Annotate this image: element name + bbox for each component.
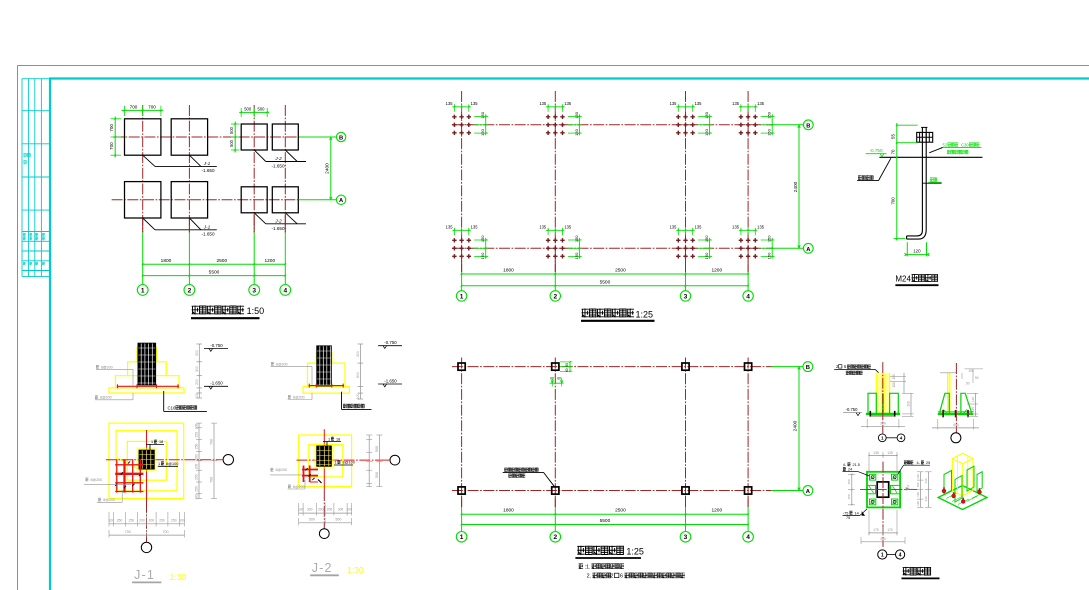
svg-text:1200: 1200: [711, 508, 722, 514]
anchor bolt group at (555,125): [546, 115, 565, 135]
svg-text:150: 150: [480, 111, 485, 118]
svg-text:150: 150: [767, 252, 772, 259]
svg-text:75: 75: [846, 516, 850, 520]
svg-text:1: 1: [141, 287, 145, 294]
svg-text:4: 4: [746, 293, 750, 300]
J-1 plan bottom dim chains: [109, 523, 184, 525]
svg-text:-1.650: -1.650: [210, 381, 223, 386]
svg-text:190: 190: [916, 492, 920, 497]
svg-text:250: 250: [117, 518, 123, 522]
svg-text:100: 100: [356, 394, 360, 400]
base plan: left gray dims: [851, 474, 853, 505]
svg-text:300: 300: [195, 366, 199, 372]
svg-text:135: 135: [887, 451, 893, 455]
J-1 section: yellow stepped footing: [109, 347, 184, 393]
J-2 section left gray labels: [271, 362, 274, 366]
base elev view2: yellow shaft: [948, 373, 950, 414]
M24 leader foundation top surface: [858, 175, 873, 180]
svg-text:4: 4: [283, 287, 287, 294]
svg-text:8@200: 8@200: [101, 365, 113, 369]
anchor plan grid bubbles: [456, 291, 466, 301]
svg-text:150: 150: [847, 479, 851, 484]
svg-text:2: 2: [611, 574, 614, 580]
svg-text:340: 340: [924, 496, 928, 501]
svg-text:8@200: 8@200: [293, 485, 305, 489]
foundation footing squares large J-1: [125, 119, 161, 155]
dim 700/700 left: [114, 117, 116, 158]
J-2 plan: yellow squares: [299, 435, 352, 487]
anchor bolt group at (462,125): [452, 115, 471, 135]
J-2 plan right dim chains: [368, 435, 370, 487]
svg-text:2: 2: [553, 293, 557, 300]
3D: yellow box column: [952, 453, 973, 464]
J-1 plan centerlines: [146, 430, 148, 502]
svg-text:500: 500: [229, 126, 234, 134]
svg-text:300: 300: [195, 350, 199, 356]
base elev view2: green base plate: [938, 413, 974, 415]
svg-text:B: B: [806, 365, 810, 371]
anchor plan bottom dims: [461, 256, 463, 272]
foundation plan bottom dims: [142, 219, 144, 233]
base elev view2: green stiffeners trapezoid: [940, 393, 949, 413]
svg-text:150: 150: [767, 235, 772, 242]
svg-text:2: 2: [553, 534, 557, 541]
svg-text:250: 250: [171, 518, 177, 522]
svg-text:135: 135: [564, 101, 572, 106]
svg-text:300: 300: [356, 351, 360, 357]
svg-text:700: 700: [109, 124, 114, 132]
svg-text:1:30: 1:30: [170, 572, 187, 582]
svg-text:120: 120: [916, 474, 920, 479]
base elev view1: green center rib: [882, 393, 884, 413]
svg-text:50: 50: [975, 376, 979, 380]
J-1 plan: nested yellow squares: [109, 423, 184, 498]
svg-text:6: 6: [844, 364, 847, 369]
svg-text:135: 135: [446, 101, 454, 106]
svg-text:1: 1: [335, 461, 337, 465]
svg-text:J-1: J-1: [203, 161, 211, 166]
svg-text:J-2: J-2: [274, 218, 282, 223]
J-2 plan bubbles: [390, 455, 400, 465]
base plan: bottom gray dims 170 170: [869, 532, 897, 534]
J-1 plan slope diagonal: [117, 458, 139, 469]
svg-text:4-: 4-: [843, 463, 847, 467]
column plan vertical centerlines: [461, 358, 463, 508]
drawing frame outer thin border: [17, 66, 19, 590]
svg-text:8@200: 8@200: [293, 395, 305, 399]
svg-text:135: 135: [564, 225, 572, 230]
svg-text:120: 120: [916, 501, 920, 506]
svg-text:150: 150: [767, 128, 772, 135]
svg-text:250: 250: [195, 432, 199, 438]
svg-text:-1.650: -1.650: [384, 378, 397, 383]
svg-text:4: 4: [900, 436, 903, 441]
svg-text:4-: 4-: [917, 461, 921, 465]
svg-text:C10: C10: [168, 406, 176, 411]
svg-text:8@200: 8@200: [276, 468, 288, 472]
svg-text:A: A: [806, 247, 811, 253]
svg-text:100: 100: [347, 507, 353, 511]
svg-text:135: 135: [539, 225, 547, 230]
svg-text:1: 1: [328, 437, 330, 441]
foundation footing squares small J-2: [241, 124, 267, 150]
3D: red anchor bolts: [943, 487, 945, 491]
svg-text:60: 60: [557, 377, 561, 381]
svg-text:4: 4: [746, 534, 750, 541]
svg-text:-1.650: -1.650: [271, 226, 284, 231]
svg-text:700: 700: [891, 197, 896, 205]
svg-text:6: 6: [620, 574, 623, 580]
svg-text:1800: 1800: [161, 258, 172, 264]
base elev view1: red centerline: [882, 362, 884, 433]
J-2 plan column section: [314, 444, 334, 469]
svg-text:170: 170: [873, 528, 879, 532]
svg-text:700: 700: [125, 530, 131, 534]
svg-text:135: 135: [732, 101, 740, 106]
svg-text:250: 250: [159, 518, 165, 522]
J-1 plan right dim chains: [198, 423, 200, 498]
base plan: centerlines: [882, 462, 884, 547]
svg-text:135: 135: [670, 101, 678, 106]
svg-text:J-2: J-2: [312, 561, 333, 575]
base elev view2: bolts dark red: [942, 410, 944, 417]
J-2 plan bottom dim chains: [299, 512, 352, 514]
svg-text:150: 150: [480, 128, 485, 135]
svg-text:1: 1: [460, 293, 464, 300]
svg-text:5500: 5500: [600, 518, 611, 524]
J-1 section leader C10 blinding: [163, 391, 165, 411]
svg-text:150: 150: [704, 111, 709, 118]
svg-text:150: 150: [704, 128, 709, 135]
base elev view2: bubble: [951, 433, 961, 443]
J-1 plan gray leader labels: [86, 478, 89, 482]
svg-text:500: 500: [375, 472, 379, 478]
svg-text:200: 200: [327, 507, 333, 511]
M24 left dim chain 55/70/700: [896, 123, 898, 241]
anchor bolt group at (555,248): [546, 238, 565, 258]
J-2 section right dim chain: [359, 344, 361, 399]
svg-text:135: 135: [873, 451, 879, 455]
base elev view1: bubbles 1-4: [878, 434, 886, 442]
svg-text:-0.750: -0.750: [384, 340, 397, 345]
M24 mid green label anchor: [930, 177, 937, 181]
M24 bolt rod: [907, 127, 923, 235]
J-1 plan red rebar grid: [116, 459, 118, 492]
svg-text:1: 1: [881, 436, 884, 441]
svg-text:-0.750: -0.750: [210, 343, 223, 348]
dim 500/500 left col3: [234, 122, 236, 153]
svg-text:18: 18: [159, 440, 163, 444]
svg-text:200: 200: [318, 507, 324, 511]
svg-text:J-1: J-1: [203, 224, 211, 229]
J-1 plan column section: [137, 448, 157, 472]
svg-text:2: 2: [188, 287, 192, 294]
anchor bolt group at (748,248): [739, 238, 758, 258]
svg-text:2400: 2400: [793, 181, 799, 192]
svg-text:700: 700: [210, 477, 214, 483]
svg-text:150: 150: [847, 494, 851, 499]
column plan title: [577, 546, 623, 555]
anchor bolt group at (686,248): [676, 238, 695, 258]
svg-text:2500: 2500: [216, 258, 227, 264]
svg-text:250: 250: [195, 474, 199, 480]
base plan: column box black: [877, 482, 889, 497]
J-2 section leader blinding: [341, 392, 343, 410]
svg-text:1800: 1800: [503, 267, 514, 273]
svg-text:200: 200: [139, 518, 145, 522]
base elev view1: green base plate: [866, 413, 900, 415]
dim 700/700 top: [122, 109, 164, 111]
svg-text:24: 24: [848, 468, 852, 472]
anchor bolt group at (462,248): [452, 238, 471, 258]
anchor plan title: [582, 309, 635, 318]
svg-text:4: 4: [899, 553, 902, 559]
svg-text:300: 300: [338, 507, 344, 511]
svg-text:B: B: [806, 123, 810, 129]
3D: green stiffener plates: [944, 471, 952, 495]
svg-text:A: A: [339, 198, 344, 204]
base plan: bubbles 1-4: [878, 550, 887, 559]
svg-text:135: 135: [757, 101, 765, 106]
base plan: green plate: [867, 472, 900, 508]
svg-text:-1.650: -1.650: [201, 231, 214, 236]
base elev view2: right gray dim chain: [975, 393, 977, 416]
svg-text:400: 400: [953, 423, 959, 427]
foundation plan: grid centerlines: [142, 105, 144, 232]
svg-text:1: 1: [158, 462, 160, 466]
svg-text:500: 500: [244, 107, 252, 112]
base elev view1: right gray dims: [903, 373, 905, 394]
svg-text:100: 100: [195, 494, 199, 500]
svg-text:-75: -75: [843, 511, 849, 515]
anchor plan: vertical centerlines: [461, 91, 463, 272]
leader J-1 row A: [143, 218, 155, 230]
svg-text:150: 150: [767, 111, 772, 118]
svg-text:J-2: J-2: [274, 156, 282, 161]
fabrication drawing title: [903, 567, 931, 576]
foundation right B/A bubbles and 2400 dim: [299, 136, 336, 138]
anchor plan: horizontal centerlines: [452, 124, 773, 126]
svg-text:100: 100: [892, 382, 896, 388]
svg-text:340: 340: [880, 422, 886, 426]
J-1 section right dim chain: [198, 344, 200, 398]
svg-text:1: 1: [151, 440, 153, 444]
svg-text:-0.750: -0.750: [846, 407, 859, 412]
base plan: right gray dim chains: [920, 472, 922, 508]
svg-text:190: 190: [906, 401, 910, 407]
svg-text:150: 150: [704, 235, 709, 242]
svg-text:190: 190: [916, 482, 920, 487]
svg-text:2400: 2400: [793, 420, 799, 431]
svg-text:200: 200: [195, 464, 199, 470]
column plan leader with welded-box note: [504, 468, 538, 472]
svg-text:8@200: 8@200: [276, 362, 288, 366]
base elev view1: anchor bolts: [869, 411, 871, 417]
svg-text:500: 500: [309, 517, 315, 521]
column plan right B/A and 2400: [771, 366, 803, 368]
svg-text:-0.750: -0.750: [869, 148, 882, 153]
svg-text::1.: :1.: [585, 564, 591, 570]
svg-text:135: 135: [670, 225, 678, 230]
column plan grid bubbles: [456, 532, 467, 543]
svg-text:170: 170: [887, 528, 893, 532]
svg-text:60: 60: [565, 368, 569, 372]
svg-text:2500: 2500: [615, 267, 626, 273]
column plan notes: [579, 563, 584, 569]
svg-text:135: 135: [446, 225, 454, 230]
J-1 section: column with rebar: [138, 343, 157, 386]
grid bubbles 1-4 foundation: [137, 285, 148, 296]
base elev view2: bottom dim 400: [937, 419, 939, 430]
svg-text:700: 700: [148, 105, 156, 110]
base elev view2: red centerline: [955, 363, 957, 433]
svg-text:300: 300: [307, 507, 313, 511]
anchor plan right B/A and 2400: [771, 124, 803, 126]
svg-text:8@200: 8@200: [100, 396, 112, 400]
svg-text:135: 135: [757, 225, 765, 230]
svg-text:70: 70: [891, 149, 896, 154]
svg-text:5500: 5500: [209, 269, 220, 275]
svg-text:135: 135: [732, 225, 740, 230]
base elev view1: yellow column shafts: [876, 373, 882, 414]
svg-text:200: 200: [195, 454, 199, 460]
title block strip: [21, 79, 23, 277]
svg-text:8@200: 8@200: [103, 498, 115, 502]
svg-text:1:30: 1:30: [347, 565, 364, 575]
svg-text:8@100: 8@100: [166, 462, 178, 466]
M24 nut and washer assembly: [917, 132, 933, 142]
svg-text:1:25: 1:25: [626, 547, 644, 557]
svg-text:C30: C30: [961, 142, 969, 147]
svg-text:700: 700: [130, 105, 138, 110]
svg-text:135: 135: [471, 225, 479, 230]
svg-text:100: 100: [109, 518, 115, 522]
svg-text:150: 150: [704, 252, 709, 259]
svg-text:1:25: 1:25: [636, 309, 654, 319]
base elev view1: green stiffener plates: [868, 393, 876, 413]
svg-text:700: 700: [163, 530, 169, 534]
J-2 plan rebar dim 1d18: [326, 442, 328, 446]
ground line (concrete top): [879, 156, 982, 158]
svg-text:3: 3: [252, 287, 256, 294]
svg-text:1:50: 1:50: [247, 306, 265, 316]
svg-text:-1.650: -1.650: [201, 168, 214, 173]
3D: green base plate rhombus: [938, 486, 987, 510]
svg-text:150: 150: [574, 111, 579, 118]
dim 500/500 top cols3-4: [239, 111, 269, 113]
svg-text:J-1: J-1: [134, 568, 155, 582]
svg-text:120: 120: [913, 248, 921, 253]
J-1 plan bubbles: [223, 455, 233, 465]
svg-text:-1.650: -1.650: [271, 164, 284, 169]
svg-text:125: 125: [971, 407, 975, 412]
svg-text:135: 135: [471, 101, 479, 106]
svg-text:8@200: 8@200: [91, 478, 103, 482]
svg-text:250: 250: [195, 486, 199, 492]
svg-text:18: 18: [336, 437, 340, 441]
svg-text:250: 250: [195, 444, 199, 450]
svg-text:B: B: [339, 135, 343, 141]
svg-text:500: 500: [258, 107, 266, 112]
anchor bolt group at (748,125): [739, 115, 758, 135]
title block tiny labels: [24, 153, 31, 157]
svg-text:100: 100: [892, 374, 896, 380]
J-1 plan rebar hook ticks: [121, 472, 123, 474]
svg-text:100: 100: [179, 518, 185, 522]
svg-text:1: 1: [460, 534, 464, 541]
svg-text:5: 5: [907, 485, 909, 489]
svg-text:2400: 2400: [325, 163, 331, 174]
svg-text:25: 25: [926, 461, 930, 465]
svg-text:500: 500: [335, 517, 341, 521]
svg-text:1: 1: [881, 553, 884, 559]
svg-text:150: 150: [574, 128, 579, 135]
svg-text:52: 52: [943, 142, 948, 147]
svg-text:500: 500: [375, 446, 379, 452]
svg-text:2500: 2500: [615, 508, 626, 514]
svg-text:3: 3: [684, 534, 688, 541]
svg-text:150: 150: [574, 235, 579, 242]
svg-text:700: 700: [210, 439, 214, 445]
svg-text:100: 100: [298, 507, 304, 511]
svg-text:150: 150: [574, 252, 579, 259]
svg-text:340: 340: [880, 537, 886, 541]
base plan: weld arrow right: [906, 488, 910, 491]
base plan: top gray dims 135 135: [869, 454, 897, 456]
svg-text:200: 200: [149, 518, 155, 522]
J-2 plan centerlines: [323, 429, 325, 490]
svg-text:60: 60: [565, 363, 569, 367]
foundation plan title: [192, 306, 244, 315]
leader J-2 row A: [254, 213, 266, 224]
svg-text:5500: 5500: [600, 279, 611, 285]
base elev view2: top gray dims: [964, 368, 983, 370]
J-2 plan black corner mark: [318, 480, 322, 484]
J-2 plan red rebar L: [303, 466, 305, 483]
svg-text:1200: 1200: [711, 267, 722, 273]
svg-text:200: 200: [195, 379, 199, 385]
column plan bottom dims: [461, 497, 463, 507]
svg-text:2.: 2.: [587, 574, 592, 580]
J-2 section red base line: [309, 385, 345, 387]
steel column sections (8 squares): [458, 363, 465, 370]
svg-text:1200: 1200: [264, 258, 275, 264]
drawing frame inner thick border: [49, 79, 51, 590]
svg-text:14: 14: [855, 511, 859, 515]
leader J-1 row B: [143, 155, 155, 166]
svg-text:A: A: [806, 489, 811, 495]
J-1 section: red base rebar line: [117, 385, 179, 387]
svg-text:55: 55: [891, 134, 896, 139]
svg-text:8@100: 8@100: [343, 461, 355, 465]
anchor bolt group at (686,125): [676, 115, 695, 135]
svg-text:150: 150: [480, 252, 485, 259]
column plan mini green dims at col2 row B: [569, 362, 571, 371]
svg-text:100: 100: [195, 393, 199, 399]
svg-text:M24: M24: [895, 274, 911, 283]
svg-text:340: 340: [924, 478, 928, 483]
svg-text:100: 100: [195, 424, 199, 430]
base plan: side stiffener strips: [867, 485, 876, 493]
svg-text:135: 135: [539, 101, 547, 106]
M24 bottom dim 120: [906, 242, 908, 256]
svg-text:125: 125: [971, 397, 975, 402]
svg-text:50: 50: [966, 382, 970, 386]
leader J-2 row B: [254, 150, 266, 162]
J-2 section: yellow footing: [303, 352, 349, 393]
J-2 plan gray leader labels: [271, 468, 274, 472]
svg-text:3: 3: [684, 293, 688, 300]
